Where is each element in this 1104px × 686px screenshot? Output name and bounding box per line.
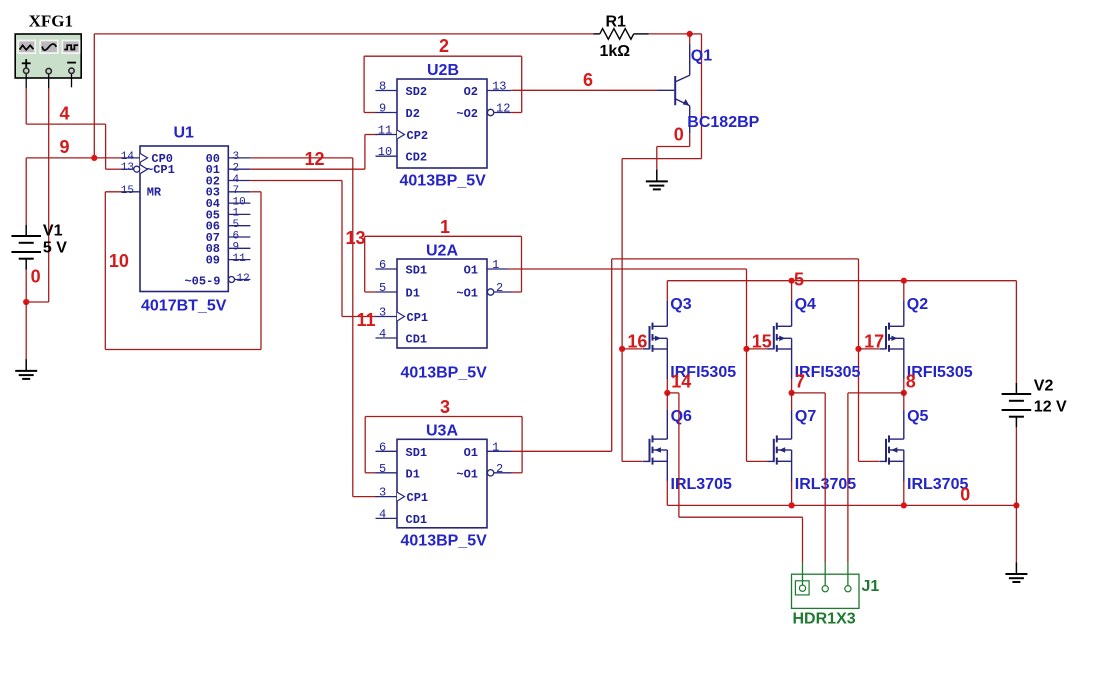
wire V2- to rail junction: [1015, 428, 1017, 506]
svg-text:4017BT_5V: 4017BT_5V: [141, 298, 227, 315]
U1 pin 2 stub: [228, 168, 250, 170]
svg-text:2: 2: [496, 462, 503, 476]
svg-text:HDR1X3: HDR1X3: [793, 611, 856, 628]
wire emitter to ground: [657, 133, 690, 170]
wire net4 into ~CP1: [106, 168, 122, 170]
XFG1 square-wave button: [62, 41, 79, 54]
wire Q7 source to rail: [791, 481, 793, 505]
svg-text:7: 7: [233, 185, 240, 197]
svg-text:4: 4: [379, 507, 386, 521]
svg-text:~O1: ~O1: [456, 287, 478, 301]
wire net3 into ~O1: [512, 472, 523, 474]
U2A ~O1 bubble: [487, 289, 493, 295]
U2B pin 9 stub: [376, 112, 398, 114]
U2B pin 8 stub: [376, 90, 398, 92]
svg-text:13: 13: [492, 80, 506, 94]
wire net10 left vertical: [104, 192, 106, 350]
junction node8: [901, 390, 907, 396]
wire net3 into D1: [365, 472, 375, 474]
svg-text:O2: O2: [464, 85, 478, 99]
svg-text:5: 5: [794, 269, 804, 289]
svg-text:9: 9: [60, 137, 70, 157]
wire net11 U1.02 horizontal: [250, 180, 342, 182]
svg-text:11: 11: [233, 253, 247, 265]
U1 ~05-9 bubble: [229, 277, 235, 283]
U2B pin 10 stub: [376, 155, 398, 157]
wire net9 left vertical to V1+: [25, 158, 27, 225]
junction node14: [664, 390, 670, 396]
svg-text:3: 3: [379, 306, 386, 320]
junction net9: [91, 155, 97, 161]
wire rail to V2: [1015, 281, 1017, 385]
battery V1 5V: [11, 225, 41, 270]
wire net2 left vertical: [363, 56, 365, 112]
U1 ~CP1 bubble: [134, 166, 140, 172]
U2A pin 2 stub: [494, 291, 512, 293]
svg-text:D1: D1: [406, 287, 420, 301]
U3A pin 4 stub: [376, 517, 398, 519]
U3A pin 3 stub: [376, 496, 398, 498]
wire net1 into D1: [365, 291, 376, 293]
wire net1 top: [365, 235, 522, 237]
transistor Q7 IRL3705: [767, 410, 792, 481]
svg-text:CD1: CD1: [406, 513, 428, 527]
svg-text:12: 12: [305, 149, 325, 169]
U2A pin 6 stub: [376, 268, 398, 270]
svg-text:1: 1: [233, 208, 240, 220]
svg-text:12 V: 12 V: [1034, 399, 1067, 416]
wire net16 bus vertical: [621, 159, 623, 462]
svg-text:14: 14: [671, 371, 691, 391]
svg-text:J1: J1: [862, 578, 880, 595]
svg-text:10: 10: [233, 196, 246, 208]
ground under V1: [15, 359, 37, 379]
connector J1 HDR1X3 body: [792, 574, 860, 608]
U2B pin 12 stub: [494, 112, 512, 114]
wire Q6 source to rail: [666, 481, 668, 505]
U1 pin 14 stub: [122, 157, 141, 159]
svg-text:XFG1: XFG1: [29, 12, 73, 31]
wire top rail to R1: [94, 33, 593, 35]
svg-text:~05-9: ~05-9: [184, 274, 220, 288]
U1 pin 9 stub: [228, 247, 250, 249]
wire net10 bottom horizontal: [105, 349, 261, 351]
wire net15 bus vertical: [746, 269, 748, 461]
svg-text:SD1: SD1: [406, 264, 428, 278]
wire net11 vertical: [341, 181, 343, 317]
svg-text:CD1: CD1: [406, 333, 428, 347]
svg-text:V1: V1: [43, 223, 63, 240]
svg-text:0: 0: [960, 485, 970, 505]
wire node7 down to Q7: [791, 393, 793, 410]
U1 pin 3 stub: [228, 157, 250, 159]
wire net10 right vertical: [260, 192, 262, 350]
J1 pin1 square: [795, 581, 809, 595]
svg-text:6: 6: [233, 230, 240, 242]
svg-text:CP1: CP1: [407, 491, 429, 505]
wire net2 right vertical: [521, 56, 523, 112]
U2B CP2 clock triangle: [397, 130, 405, 139]
junction net16 gate tap: [619, 346, 625, 352]
wire net11 into U2A CP1: [342, 316, 376, 318]
wire net10 U1.03 to loop: [250, 191, 261, 193]
wire net1 left vertical: [364, 236, 366, 292]
U1 pin 11 stub: [228, 259, 250, 261]
transistor Q2 IRFI5305: [879, 301, 904, 379]
wire net17 O1 output horizontal: [511, 450, 612, 452]
wire net2 top: [364, 55, 522, 57]
svg-text:Q4: Q4: [795, 296, 816, 313]
XFG1 triangle-wave button: [18, 41, 35, 54]
wire rail junction to ground: [1015, 505, 1017, 562]
U1 pin 10 stub: [228, 202, 250, 204]
svg-text:1: 1: [440, 217, 450, 237]
function generator XFG1: [15, 34, 81, 78]
wire net12 U1.01 horizontal: [250, 168, 365, 170]
svg-text:2: 2: [233, 163, 240, 175]
transistor Q5 IRL3705: [879, 410, 904, 481]
U3A pin 2 stub: [494, 472, 512, 474]
svg-text:D1: D1: [406, 467, 420, 481]
wire common to node0 dot: [26, 301, 49, 303]
U1 pin 6 stub: [228, 236, 250, 238]
J1 pin1 lead: [802, 562, 804, 585]
wire net15 to Q4 gate: [747, 348, 768, 350]
svg-text:4013BP_5V: 4013BP_5V: [401, 365, 488, 382]
wire net5 top rail: [667, 280, 1016, 282]
svg-text:3: 3: [440, 397, 450, 417]
wire net10 into MR: [105, 191, 121, 193]
wire net12 into U2B CP2: [365, 134, 377, 136]
U1 pin 7 stub: [228, 191, 250, 193]
U2A CP1 clock triangle: [397, 312, 405, 321]
svg-text:R1: R1: [606, 14, 627, 31]
wire net0 bottom rail: [667, 504, 1016, 506]
svg-text:1kΩ: 1kΩ: [600, 43, 631, 60]
svg-text:4013BP_5V: 4013BP_5V: [400, 173, 487, 190]
svg-text:10: 10: [378, 145, 392, 159]
wire net4 vertical to pin13: [105, 124, 107, 169]
svg-text:CP1: CP1: [407, 311, 429, 325]
U3A pin 1 stub: [487, 450, 511, 452]
svg-text:1: 1: [492, 258, 499, 272]
wire net13 U1.00 horizontal: [250, 157, 352, 159]
svg-text:~O2: ~O2: [456, 107, 478, 121]
U2B ~O2 bubble: [487, 109, 493, 115]
U3A pin 6 stub: [376, 450, 398, 452]
svg-text:12: 12: [496, 102, 510, 116]
svg-text:6: 6: [379, 440, 386, 454]
junction net17 gate tap: [855, 346, 861, 352]
wire net2 into D2: [364, 112, 375, 114]
svg-text:0: 0: [31, 266, 41, 286]
svg-text:IRL3705: IRL3705: [671, 476, 732, 493]
U3A ~O1 bubble: [487, 470, 493, 476]
wire net17 top horizontal: [612, 258, 859, 260]
wire net3 left vertical: [364, 417, 366, 473]
svg-text:0: 0: [674, 125, 684, 145]
wire net16 to Q3 gate: [622, 348, 642, 350]
svg-text:13: 13: [346, 228, 366, 248]
svg-text:2: 2: [439, 36, 449, 56]
svg-text:Q3: Q3: [670, 296, 691, 313]
wire Q5 source to rail: [903, 481, 905, 505]
svg-text:IRL3705: IRL3705: [907, 476, 968, 493]
wire node7 to J1 branch: [792, 393, 826, 562]
svg-text:O1: O1: [464, 446, 478, 460]
junction rail Q7: [789, 502, 795, 508]
U1 pin 12 stub: [235, 279, 251, 281]
wire R1 to collector node: [649, 33, 690, 35]
svg-text:D2: D2: [406, 107, 420, 121]
wire net16 horizontal: [622, 158, 701, 160]
svg-text:CP2: CP2: [407, 129, 429, 143]
IC U1 4017 body: [140, 146, 228, 292]
svg-text:9: 9: [233, 242, 240, 254]
wire rail down to leg1: [666, 281, 668, 302]
svg-text:U2B: U2B: [427, 62, 459, 79]
wire node0 to ground: [25, 302, 27, 359]
wire net3 top: [365, 416, 522, 418]
transistor Q4 IRFI5305: [767, 301, 792, 379]
svg-text:MR: MR: [147, 186, 162, 200]
XFG1 terminal +: [24, 68, 29, 88]
U1 pin 5 stub: [228, 225, 250, 227]
U2A pin 3 stub: [376, 316, 398, 318]
svg-text:O1: O1: [464, 264, 478, 278]
XFG1 terminal common: [46, 68, 51, 88]
svg-text:12: 12: [237, 273, 250, 285]
wire net16 to Q6 gate: [622, 460, 642, 462]
U2A pin 4 stub: [376, 337, 398, 339]
wire node8 down to Q5: [903, 393, 905, 410]
svg-text:Q6: Q6: [671, 408, 692, 425]
wire net15 to Q7 gate: [747, 460, 768, 462]
svg-text:11: 11: [357, 310, 376, 330]
svg-text:Q5: Q5: [907, 408, 928, 425]
wire net16 right vertical: [701, 34, 703, 159]
wire net9 riser to top rail: [93, 34, 95, 158]
svg-text:SD1: SD1: [406, 446, 428, 460]
U1 pin 15 stub: [122, 191, 141, 193]
junction rail V2: [1013, 502, 1019, 508]
IC U2A 4013 body: [397, 259, 487, 348]
svg-text:V2: V2: [1034, 378, 1054, 395]
svg-text:5: 5: [233, 219, 240, 231]
ground bottom right: [1005, 562, 1027, 582]
wire Q3 source to node14: [666, 379, 668, 393]
wire net1 into ~O1: [512, 291, 522, 293]
U1 ~CP1 clock triangle: [140, 165, 148, 174]
transistor Q1 BC182BP: [657, 44, 690, 133]
transistor Q3 IRFI5305: [643, 301, 668, 379]
svg-text:09: 09: [206, 254, 220, 268]
resistor R1: [594, 29, 649, 40]
J1 pin1 circle: [799, 585, 805, 591]
svg-text:6: 6: [379, 258, 386, 272]
svg-text:4: 4: [60, 104, 70, 124]
wire net17 riser: [611, 259, 613, 451]
junction node7: [789, 390, 795, 396]
svg-text:5: 5: [379, 462, 386, 476]
J1 pin3 circle: [845, 586, 851, 592]
wire net17 bus vertical: [858, 259, 860, 462]
wire XFG1+ down to net4 corner: [25, 88, 27, 124]
IC U3A 4013 body: [397, 439, 487, 528]
transistor Q6 IRL3705: [643, 410, 668, 481]
svg-text:10: 10: [109, 251, 129, 271]
svg-text:5: 5: [379, 281, 386, 295]
wire node14 to J1 branch: [667, 393, 802, 562]
U1 pin 1 stub: [228, 213, 250, 215]
wire collector drop: [689, 34, 691, 44]
U1 CP0 clock triangle: [140, 153, 148, 162]
junction rail leg3: [901, 278, 907, 284]
svg-text:~CP1: ~CP1: [146, 163, 175, 177]
svg-text:Q1: Q1: [691, 48, 712, 65]
U3A CP1 clock triangle: [397, 492, 405, 501]
svg-text:Q7: Q7: [795, 408, 816, 425]
XFG1 terminal -: [69, 68, 74, 87]
wire XFG1 common down: [48, 88, 50, 302]
ground under Q1: [646, 170, 668, 190]
wire Q4 source to node7: [791, 379, 793, 393]
wire node8 to J1 branch: [848, 393, 904, 562]
svg-text:U1: U1: [174, 125, 195, 142]
U3A pin 5 stub: [376, 472, 398, 474]
svg-text:U2A: U2A: [426, 243, 458, 260]
XFG1 plus mark: [22, 59, 31, 67]
svg-text:U3A: U3A: [426, 423, 458, 440]
wire net9 horizontal to CP0: [26, 157, 121, 159]
J1 pin2 lead: [824, 562, 826, 586]
junction node0: [23, 299, 29, 305]
svg-text:CD2: CD2: [406, 151, 428, 165]
svg-text:4013BP_5V: 4013BP_5V: [401, 533, 488, 550]
svg-text:Q2: Q2: [907, 296, 928, 313]
wire net1 right vertical: [521, 236, 523, 292]
svg-text:IRFI5305: IRFI5305: [907, 364, 973, 381]
svg-text:8: 8: [906, 371, 916, 391]
svg-text:SD2: SD2: [406, 85, 428, 99]
wire net17 to Q5 gate: [859, 460, 880, 462]
svg-text:14: 14: [121, 151, 135, 163]
IC U2B 4013 body: [397, 79, 487, 168]
junction net15 gate tap: [743, 346, 749, 352]
svg-text:7: 7: [795, 371, 805, 391]
battery V2 12V: [1002, 383, 1032, 428]
wire rail down to leg2: [791, 281, 793, 302]
XFG1 sine-wave button: [40, 41, 58, 54]
svg-text:11: 11: [378, 124, 392, 138]
junction collector node: [687, 31, 693, 37]
svg-text:4: 4: [233, 174, 240, 186]
svg-text:9: 9: [379, 102, 386, 116]
U1 pin 13 stub: [122, 168, 134, 170]
J1 pin2 circle: [822, 586, 828, 592]
wire net15 O1 output horizontal: [508, 268, 747, 270]
U2A pin 1 stub: [487, 268, 508, 270]
wire node14 down to Q6: [666, 393, 668, 410]
svg-text:4: 4: [379, 327, 386, 341]
svg-text:5 V: 5 V: [43, 240, 67, 257]
svg-text:3: 3: [233, 151, 240, 163]
wire collector node right: [690, 33, 702, 35]
svg-text:6: 6: [583, 70, 593, 90]
wire net13 into U3A CP1: [353, 496, 377, 498]
wire Q2 source to node8: [903, 379, 905, 393]
svg-text:13: 13: [121, 162, 134, 174]
wire net6 O2 to Q1 base: [511, 89, 657, 91]
svg-text:BC182BP: BC182BP: [687, 114, 759, 131]
wire net12 vertical up: [364, 135, 366, 170]
svg-text:2: 2: [496, 281, 503, 295]
XFG1 minus mark: [67, 62, 76, 64]
junction rail Q5: [901, 502, 907, 508]
wire net4 horizontal: [26, 123, 105, 125]
U2B pin 13 stub: [487, 90, 511, 92]
J1 pin3 lead: [847, 562, 849, 586]
U2B pin 11 stub: [376, 134, 398, 136]
svg-text:8: 8: [379, 80, 386, 94]
wire rail down to leg3: [903, 281, 905, 302]
wire V1- to node0: [25, 270, 27, 303]
wire net2 into ~O2: [511, 112, 521, 114]
U1 pin 4 stub: [228, 180, 250, 182]
wire net3 right vertical: [521, 417, 523, 473]
wire net17 to Q2 gate: [859, 348, 880, 350]
svg-text:15: 15: [121, 185, 134, 197]
svg-text:3: 3: [379, 486, 386, 500]
wire net13 vertical: [352, 158, 354, 497]
U2A pin 5 stub: [376, 291, 398, 293]
svg-text:~O1: ~O1: [456, 467, 478, 481]
junction rail leg2: [789, 278, 795, 284]
svg-text:1: 1: [492, 440, 499, 454]
